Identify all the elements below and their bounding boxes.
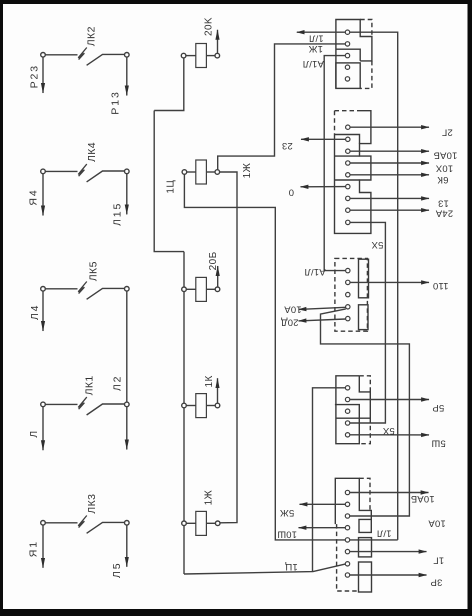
svg-text:1/Л: 1/Л (377, 527, 392, 538)
svg-text:ЛК1: ЛК1 (84, 375, 96, 395)
wire arrow 2G from X2 pin1 (350, 126, 429, 128)
svg-text:10А: 10А (428, 518, 446, 529)
wire X4 pin1 to net 1Ts (313, 388, 346, 572)
border frame bottom (0, 609, 472, 616)
connector X4 housing solid outline (335, 376, 370, 444)
wire arrow 5Sh from X4 pin5 (350, 434, 429, 436)
connector X5 contact bar lower (359, 562, 372, 592)
wire arrow P23 (42, 57, 44, 93)
svg-text:Л: Л (28, 429, 40, 438)
svg-text:1Ж: 1Ж (309, 43, 323, 54)
svg-text:А1/Л: А1/Л (303, 58, 324, 69)
wire arrow 10Sh from X5 pin4 (299, 527, 346, 529)
svg-text:Я4: Я4 (28, 188, 40, 205)
wire arrow 1/L from X1 pin1 (297, 31, 346, 33)
wire arrow 10A from X3 pin4 (299, 307, 346, 309)
wire arrow 110 from X3 pin2 (350, 281, 429, 283)
connector X2 internal divider 2 (335, 155, 360, 157)
wire R1 left lead down (154, 58, 184, 111)
wire bus 1Ts resistor left leads (183, 252, 185, 574)
svg-text:P23: P23 (29, 64, 41, 88)
resistor R1 20K (181, 44, 219, 68)
svg-text:ЛК4: ЛК4 (86, 142, 98, 162)
svg-text:Л5: Л5 (111, 562, 123, 579)
connector X4 pins 1-5 (345, 386, 349, 437)
svg-text:20K: 20K (204, 17, 215, 36)
resistor R5 1Zh (182, 511, 220, 535)
wire connector X1 pin1 to trunk 1/L (350, 32, 398, 540)
wire arrow L4 (42, 291, 44, 331)
wire arrow Ya4 (42, 174, 44, 216)
svg-text:1Ц: 1Ц (285, 561, 298, 572)
wire arrow 6K from X2 pin5 (350, 174, 429, 176)
svg-text:1К: 1К (204, 375, 215, 387)
arrow up 20K (217, 30, 219, 54)
connector X4 housing dashed outline (359, 376, 370, 444)
resistor R4 1K (182, 394, 220, 418)
wire X2 pin9 to X4 pin4 trunk (350, 222, 386, 423)
connector X1 pins 1-5 (345, 30, 349, 81)
wire arrow 10X from X2 pin4 (350, 162, 429, 164)
resistor R2 (182, 160, 220, 184)
connector X5 pins 1-8 (345, 490, 349, 577)
svg-text:10Х: 10Х (435, 163, 453, 174)
border frame top (0, 0, 472, 4)
wire arrow 24A from X2 pin8 (350, 209, 429, 211)
wire X3 pin4 to X5 pin3 net 10A (321, 309, 410, 516)
connector X5 housing solid outline (335, 478, 371, 532)
resistor R3 20B (182, 277, 220, 301)
svg-text:Я1: Я1 (28, 540, 40, 557)
wire net 1Ts bottom horizontal (184, 564, 346, 574)
wire arrow 3R from X5 pin8 (350, 574, 427, 576)
svg-text:10АБ: 10АБ (411, 493, 435, 504)
border frame right (468, 0, 472, 616)
wire arrow below LK1 right contact (126, 407, 128, 450)
wire trunk 1/L into X5 pin5 (350, 539, 398, 541)
wire R2 right to R5 right trunk 1Zh (220, 172, 237, 523)
svg-text:2Г: 2Г (442, 127, 453, 138)
svg-text:5Х: 5Х (371, 239, 383, 250)
wire LK5 right contact to LK1 right contact net L2 (126, 291, 128, 402)
wire arrow 10AB from X5 pin1 (350, 492, 429, 494)
connector X1 housing dashed outline (360, 20, 372, 89)
svg-text:1Ж: 1Ж (242, 162, 253, 178)
wire arrow 13 from X2 pin7 (350, 197, 429, 199)
svg-text:20Б: 20Б (208, 251, 219, 270)
svg-text:ЛК3: ЛК3 (86, 494, 98, 514)
svg-text:5Р: 5Р (432, 402, 444, 413)
wire arrow 23 from X2 pin2 (301, 138, 346, 140)
svg-text:А1/Л: А1/Л (304, 266, 325, 277)
wire arrow 0 from X2 pin6 (301, 186, 346, 188)
svg-text:Л4: Л4 (29, 304, 41, 321)
wire arrow Ya1 (42, 525, 44, 568)
connector X3 contact bar lower (359, 305, 369, 330)
svg-text:20Д: 20Д (281, 316, 299, 327)
connector X1 lower contact group box (336, 63, 360, 89)
limit switch LK2 (41, 48, 129, 66)
svg-text:13: 13 (438, 198, 449, 209)
svg-text:10А: 10А (284, 304, 302, 315)
svg-text:1Г: 1Г (433, 555, 444, 566)
limit switch LK1 (41, 397, 129, 415)
wire arrow 1G from X5 pin6 (350, 551, 427, 553)
svg-text:0: 0 (289, 187, 294, 198)
arrow up 20B (217, 266, 219, 287)
wire arrow L15 (126, 174, 128, 215)
connector X5 contact bar upper (359, 538, 372, 557)
svg-text:5Ж: 5Ж (280, 507, 294, 518)
wire arrow L5 (126, 525, 128, 567)
connector X3 pins 1-5 (346, 268, 350, 320)
wire arrow 10AB from X2 pin3 (350, 150, 429, 152)
svg-text:P13: P13 (109, 90, 121, 114)
svg-text:6К: 6К (437, 174, 448, 185)
connector X2 pins 1-9 (346, 125, 350, 225)
svg-text:5Ш: 5Ш (431, 437, 445, 448)
connector X5 housing dashed outline (337, 478, 370, 591)
limit switch LK5 (41, 282, 129, 300)
svg-text:Л15: Л15 (111, 202, 123, 226)
connector X2 housing dashed top (335, 111, 360, 135)
wire arrow P13 (126, 57, 128, 95)
svg-text:ЛК5: ЛК5 (88, 261, 100, 281)
svg-text:110: 110 (433, 280, 449, 291)
arrow up 1K (217, 378, 219, 403)
limit switch LK3 (41, 516, 129, 534)
limit switch LK4 (41, 164, 129, 182)
connector X1 housing solid outline (336, 20, 372, 89)
wire R2 right to 1Zh riser (218, 44, 346, 170)
connector X3 housing dashed outline (335, 258, 368, 331)
connector X3 contact bar upper (359, 259, 369, 298)
border frame left (0, 0, 3, 616)
wire trunk A1/L from X1 pin3 (324, 56, 345, 271)
svg-text:Л2: Л2 (111, 375, 123, 392)
wire arrow 5Zh from X5 pin2 (300, 503, 346, 505)
wire arrow 5R from X4 pin2 (350, 399, 429, 401)
wire arrow L (42, 407, 44, 451)
wire R2 left lead jog (184, 174, 345, 540)
wire trunk net 1Ts left (154, 111, 184, 252)
svg-text:23: 23 (282, 140, 293, 151)
svg-text:10Ш: 10Ш (277, 529, 297, 540)
svg-text:10АБ: 10АБ (433, 149, 457, 160)
wire arrow 20D from X3 pin5 (299, 319, 346, 321)
connector X2 internal divider 3 (335, 179, 360, 181)
svg-text:1Ж: 1Ж (204, 489, 215, 505)
svg-text:3Р: 3Р (430, 576, 442, 587)
connector X2 housing solid comb outline (335, 111, 371, 234)
connector X2 internal divider 1 (335, 135, 360, 144)
svg-text:1/Л: 1/Л (309, 33, 324, 44)
svg-text:ЛК2: ЛК2 (86, 26, 98, 46)
svg-text:1Ц: 1Ц (166, 180, 177, 194)
svg-text:5Х: 5Х (382, 425, 394, 436)
svg-text:24А: 24А (435, 207, 453, 218)
